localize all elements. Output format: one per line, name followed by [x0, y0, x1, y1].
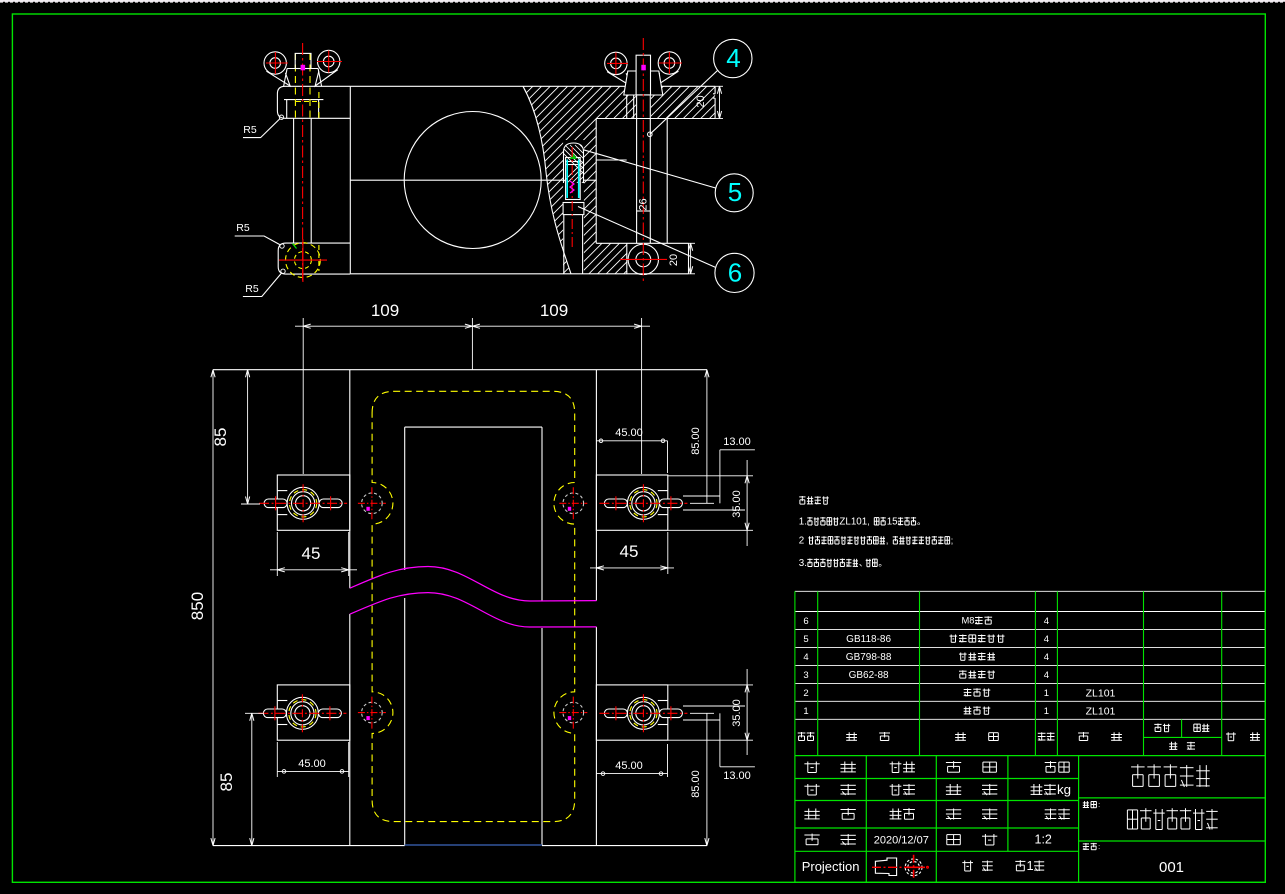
dim 45.00 lower-left — [277, 742, 348, 777]
dim 13.00 upper-right — [683, 436, 755, 510]
title value 制图 — [890, 784, 915, 795]
locating pin UL — [358, 487, 386, 519]
swing bolt left shaft — [294, 118, 312, 243]
dim 45.00 upper-right — [596, 427, 667, 473]
svg-text:1: 1 — [803, 706, 808, 717]
BOM header shuliang — [1038, 732, 1055, 740]
dim 85.00 upper-right — [690, 370, 714, 504]
svg-text:4: 4 — [1044, 652, 1049, 663]
threaded insert crosshatch — [555, 143, 630, 190]
BOM row 3 number — [803, 670, 808, 681]
svg-text:;: ; — [951, 536, 953, 546]
svg-text:Projection: Projection — [802, 859, 860, 874]
dim 85.00 lower-right — [690, 713, 714, 845]
M8 screw cyan highlight — [567, 160, 579, 199]
svg-text:GB62-88: GB62-88 — [849, 670, 889, 681]
title value scale — [1035, 833, 1052, 847]
svg-text:26: 26 — [638, 198, 650, 210]
title label 日 期 — [804, 834, 855, 845]
upper-right wing nut — [605, 52, 681, 95]
drawing sheet top edge strip — [0, 0, 1285, 3]
svg-text:ZL101: ZL101 — [1086, 687, 1116, 699]
dim 85 lower-left — [217, 713, 264, 845]
BOM header zhongliang — [1169, 742, 1195, 750]
svg-text:。: 。 — [917, 517, 926, 527]
plate counterbore — [284, 100, 323, 119]
centerline right ears — [607, 52, 682, 74]
BOM header danjian — [1154, 724, 1170, 732]
BOM row 2 number — [803, 688, 808, 699]
svg-text:GB798-88: GB798-88 — [846, 652, 892, 663]
core box body bottom edge — [350, 273, 688, 275]
green cone tip — [570, 154, 577, 159]
hidden pivot circles (left block) — [286, 243, 321, 278]
svg-text:R5: R5 — [236, 222, 250, 234]
plan column left edge — [349, 370, 351, 846]
BOM header daihao — [846, 732, 890, 741]
magenta mark right nut — [641, 65, 646, 71]
svg-text:35.00: 35.00 — [731, 490, 743, 518]
centerline left hidden circles — [279, 239, 327, 282]
svg-text:3.: 3. — [799, 558, 807, 569]
svg-text:R5: R5 — [243, 124, 257, 136]
dim 35.00 lower-right — [668, 669, 753, 755]
label R5 bottom — [243, 269, 285, 296]
BOM row 2 material — [1086, 687, 1116, 699]
plan bottom edge — [213, 845, 707, 847]
lower-right clamp plate (plan) — [596, 685, 667, 740]
BOM row 4 qty — [1044, 652, 1049, 663]
svg-text:85: 85 — [217, 773, 236, 792]
svg-text:45.00: 45.00 — [298, 758, 326, 770]
balloon 6 — [715, 253, 754, 292]
BOM row 5 code GB118-86 — [846, 634, 891, 645]
svg-text:5: 5 — [803, 634, 808, 645]
balloon 4 — [714, 39, 752, 77]
svg-text:、: 、 — [859, 558, 868, 568]
svg-text:ZL101: ZL101 — [1086, 705, 1116, 717]
svg-text:1:2: 1:2 — [1035, 833, 1052, 847]
dim 20 lower — [668, 243, 695, 273]
svg-text:001: 001 — [1159, 859, 1184, 876]
upright lug outline — [596, 86, 688, 243]
projection symbol circles — [905, 855, 928, 880]
dim 26 — [638, 198, 650, 210]
svg-text:M8: M8 — [962, 615, 975, 626]
svg-text:850: 850 — [188, 592, 207, 620]
title value 设计 — [890, 762, 915, 773]
BOM row 6 qty — [1044, 616, 1049, 627]
svg-text:2020/12/07: 2020/12/07 — [874, 835, 929, 847]
upper-right clamp plate (plan) — [596, 475, 667, 530]
svg-text:1: 1 — [1044, 688, 1049, 699]
dim 35.00 upper-right — [668, 460, 753, 546]
upper-left wing nut — [264, 50, 340, 86]
svg-text:6: 6 — [728, 258, 742, 288]
BOM row 3 name — [959, 670, 995, 678]
wing nut UR (plan) — [599, 484, 687, 522]
drawing number 001 — [1159, 859, 1184, 876]
title label2 重 量 — [946, 784, 997, 795]
svg-text:20: 20 — [668, 254, 680, 266]
name label — [1083, 800, 1100, 809]
BOM row 1 material — [1086, 705, 1116, 717]
upper-left clamp plate (plan) — [277, 475, 350, 530]
svg-text:4: 4 — [726, 43, 740, 73]
svg-text:15: 15 — [887, 517, 898, 528]
svg-text:。: 。 — [878, 558, 887, 568]
svg-text:,: , — [867, 517, 869, 527]
svg-text:1: 1 — [1044, 706, 1049, 717]
university name — [1131, 764, 1210, 787]
BOM row 4 name — [959, 653, 995, 661]
cavity left edge — [404, 427, 406, 845]
svg-text:35.00: 35.00 — [731, 699, 743, 727]
BOM vertical lines — [795, 591, 1265, 755]
swing bolt right shaft — [637, 95, 651, 243]
drawing title — [1127, 808, 1217, 829]
balloon 5 — [715, 174, 753, 212]
BOM row 2 qty — [1044, 688, 1049, 699]
centerline left ears — [266, 51, 342, 75]
svg-text:20: 20 — [695, 95, 707, 107]
BOM header zongji — [1194, 724, 1210, 732]
svg-text:85: 85 — [211, 428, 230, 447]
note 2 — [799, 536, 953, 547]
green witness tick — [293, 244, 297, 249]
cavity right edge — [541, 427, 543, 845]
lower left clamp block — [278, 243, 350, 274]
technical notes title — [799, 496, 829, 504]
title label 审 核 — [804, 808, 855, 819]
BOM row 1 number — [803, 706, 808, 717]
plan top edge — [213, 369, 707, 371]
title block vertical lines — [795, 756, 1079, 883]
svg-text:45: 45 — [620, 542, 639, 561]
wing nut UL (plan) — [259, 484, 347, 522]
title value 审核 — [890, 808, 915, 819]
lower-left clamp plate (plan) — [277, 685, 350, 740]
dim 45.00 lower-right — [596, 744, 667, 777]
dim 20 upper — [695, 86, 723, 118]
svg-text:3: 3 — [803, 670, 808, 681]
dim 85 upper-left — [211, 370, 260, 504]
title value2 材质 — [1045, 761, 1070, 772]
title label2 数 量 — [946, 809, 997, 820]
dim 850 — [188, 370, 215, 846]
svg-text:4: 4 — [803, 652, 808, 663]
M8 nut — [563, 203, 584, 215]
wing nut LL (plan) — [258, 694, 346, 732]
dim text 109 right — [540, 301, 568, 320]
locating pin UR — [559, 487, 587, 519]
svg-text:109: 109 — [371, 301, 399, 320]
projection symbol frustum — [872, 858, 925, 876]
pivot block bottom right — [627, 243, 689, 273]
BOM row 5 qty — [1044, 634, 1049, 645]
note 1 — [799, 517, 926, 528]
parting line — [350, 179, 596, 181]
svg-text:1: 1 — [1027, 858, 1034, 873]
cavity top edge — [405, 426, 542, 428]
BOM row 1 name — [964, 706, 991, 714]
BOM header mingcheng — [955, 732, 998, 740]
wing nut LR (plan) — [599, 694, 687, 732]
locating pin LL — [358, 697, 386, 729]
svg-text:ZL101: ZL101 — [839, 517, 867, 528]
leader to balloon 6 — [578, 207, 715, 268]
BOM row 5 name — [950, 635, 1005, 643]
locating pin LR — [559, 697, 587, 729]
dim 109 line — [295, 324, 650, 328]
BOM row 6 name — [962, 615, 993, 626]
svg-text::: : — [1098, 842, 1100, 851]
sheet count gongye — [962, 861, 992, 872]
leader to balloon 5 — [584, 150, 716, 188]
number label — [1083, 842, 1100, 851]
label R5 top — [243, 115, 284, 138]
svg-text:kg: kg — [1057, 782, 1071, 797]
centerline left bolt — [302, 43, 304, 283]
title label2 材 质 — [946, 761, 997, 772]
title label 制 图 — [804, 784, 855, 795]
svg-text:2: 2 — [799, 536, 804, 547]
BOM row 3 qty — [1044, 670, 1049, 681]
svg-text:R5: R5 — [245, 283, 259, 295]
BOM row 2 name — [964, 688, 991, 696]
hidden screw thread (left, dashed) — [295, 53, 319, 118]
BOM header cailiao — [1078, 732, 1122, 741]
core box body left edge — [349, 86, 351, 273]
magenta mark left nut — [301, 65, 306, 71]
dim 45 upper-left — [270, 532, 357, 576]
BOM row 5 number — [803, 634, 808, 645]
upper left clamp plate — [277, 86, 350, 118]
big core hole circle — [404, 112, 541, 249]
label R5 middle — [235, 222, 284, 248]
BOM row 6 number — [803, 616, 808, 627]
core box body top edge — [350, 85, 715, 87]
break line lower — [350, 593, 597, 627]
svg-text:5: 5 — [728, 177, 742, 207]
title value2 数量 — [1045, 809, 1070, 820]
svg-text::: : — [1098, 800, 1100, 809]
svg-text:2: 2 — [803, 688, 808, 699]
title label 设 计 — [804, 762, 855, 773]
BOM header xuhao — [798, 732, 815, 741]
projection label — [802, 859, 860, 874]
plan column right edge — [595, 370, 597, 846]
magenta M8 label — [570, 181, 574, 193]
upper right step block — [596, 86, 715, 118]
svg-text:13.00: 13.00 — [723, 770, 751, 782]
dim 13.00 lower-right — [683, 706, 755, 782]
svg-text:6: 6 — [803, 616, 808, 627]
svg-text:85.00: 85.00 — [690, 770, 702, 798]
dim 109 extension lines — [303, 318, 641, 474]
svg-text:4: 4 — [1044, 616, 1049, 627]
dim text 109 left — [371, 301, 399, 320]
svg-text:4: 4 — [1044, 670, 1049, 681]
svg-text:45.00: 45.00 — [615, 427, 643, 439]
core cavity arc (hook profile) — [523, 86, 571, 273]
M8 screw shank — [566, 158, 581, 200]
support pillar — [564, 215, 583, 274]
sheet number di1ye — [1015, 858, 1044, 873]
title value2 重量kg — [1031, 782, 1071, 797]
BOM horizontal lines — [795, 591, 1265, 719]
title value date — [874, 835, 929, 847]
core print hidden outline (yellow dashed) — [372, 391, 575, 821]
dim 45 upper-right — [590, 532, 674, 574]
BOM row 3 code GB62-88 — [849, 670, 889, 681]
BOM row 1 qty — [1044, 706, 1049, 717]
centerline right bolt — [642, 38, 644, 283]
svg-text:,: , — [886, 536, 888, 546]
section hatching (cut surface) — [52, 80, 1285, 280]
svg-text:45.00: 45.00 — [615, 760, 643, 772]
BOM row 4 code GB798-88 — [846, 652, 892, 663]
centerline M8 screw — [571, 147, 573, 248]
centerline pivot pin — [620, 258, 667, 260]
pivot pin circle — [628, 244, 658, 274]
leader to balloon 4 — [648, 71, 718, 137]
svg-text:13.00: 13.00 — [723, 436, 751, 448]
note 3 — [799, 558, 887, 569]
svg-text:45: 45 — [302, 544, 321, 563]
svg-text:GB118-86: GB118-86 — [846, 634, 891, 645]
title label2 比 例 — [947, 834, 998, 845]
break line upper — [350, 567, 597, 602]
svg-text:109: 109 — [540, 301, 568, 320]
svg-text:1.: 1. — [799, 517, 807, 528]
svg-text:85.00: 85.00 — [690, 427, 702, 455]
BOM row 4 number — [803, 652, 808, 663]
BOM header beizhu — [1226, 732, 1260, 740]
cavity bottom edge (blue) — [405, 844, 542, 846]
svg-text:4: 4 — [1044, 634, 1049, 645]
title block horizontal lines — [795, 756, 1265, 883]
